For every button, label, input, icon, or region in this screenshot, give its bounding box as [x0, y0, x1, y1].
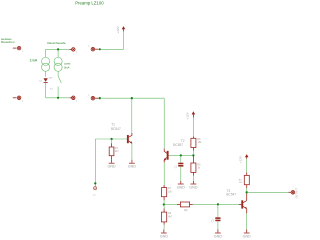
wire rail drop to T2 [163, 98, 165, 148]
node junction bottom noise rail [57, 97, 59, 99]
ground under T1 emitter [128, 160, 137, 169]
resistor R3 [191, 155, 196, 181]
wire junction to R5 [164, 204, 177, 206]
svg-text:1mA: 1mA [30, 58, 38, 62]
resistor R1 [109, 139, 114, 160]
transistor T3 [241, 200, 247, 209]
svg-text:BC547: BC547 [111, 127, 121, 131]
connector X3 (right of noise rail bottom) [70, 96, 78, 102]
ground under R3 [189, 181, 198, 189]
connector X1 (noise input left top) [13, 46, 24, 53]
resistor R6 [162, 205, 167, 230]
wire T2 base [169, 154, 194, 156]
svg-text:Preamp LZ100: Preamp LZ100 [75, 0, 104, 5]
svg-text:OUTPUT: OUTPUT [296, 188, 299, 199]
wire T3 emitter down [246, 209, 248, 214]
wire supply rail horizontal [100, 97, 164, 99]
capacitor C2 [215, 204, 220, 229]
ground under R6 [160, 229, 169, 238]
svg-text:+12V: +12V [185, 111, 189, 119]
svg-text:Rauschen: Rauschen [1, 40, 15, 44]
connector X7 (points down) [93, 184, 97, 197]
connector X5 (+12V feed) [88, 46, 99, 51]
wire bottom rail of noise source [46, 97, 70, 99]
svg-text:BC557: BC557 [173, 143, 183, 147]
wire T1 emitter [131, 144, 133, 160]
capacitor C1 [178, 155, 183, 181]
resistor R5 (horizontal) [177, 202, 193, 207]
wire R5 to C2 junction [193, 203, 218, 205]
wire output to connector [247, 191, 289, 193]
wire switch bottom [57, 87, 59, 98]
node junction top noise rail [57, 48, 59, 50]
node junction rail T1 collector [131, 97, 133, 99]
wire top rail of noise source [46, 48, 70, 50]
label T1 [111, 123, 121, 131]
wire T2 emitter down [163, 160, 165, 163]
svg-text:GND: GND [128, 165, 137, 169]
node junction output [246, 191, 248, 193]
wire base drop to connector [94, 139, 96, 183]
svg-text:GND: GND [108, 165, 117, 169]
wire T1 base [95, 138, 127, 140]
node junction C2/T3 base [217, 203, 219, 205]
svg-text:Z3V: Z3V [49, 78, 54, 80]
svg-text:BC547: BC547 [226, 193, 236, 197]
ground under C1 [177, 181, 186, 189]
label R7 [239, 179, 243, 184]
node junction emitter divider [163, 203, 165, 205]
ground under R1 [108, 160, 117, 169]
svg-text:GND: GND [243, 234, 252, 238]
label weisses Rauschen [1, 37, 15, 44]
wire T1 collector drop [131, 98, 133, 133]
wire zener to bottom rail [45, 83, 47, 98]
svg-text:4k7: 4k7 [168, 215, 173, 218]
resistor R4 [162, 185, 167, 205]
label R6 [168, 212, 173, 218]
wire C2 junction to T3 base [218, 203, 239, 205]
label R2 [197, 138, 202, 144]
connector X6 (supply rail feed) [88, 95, 98, 100]
svg-text:GND: GND [189, 185, 198, 189]
svg-text:1k0: 1k0 [184, 209, 189, 212]
svg-text:+12V: +12V [239, 155, 243, 163]
svg-text:4k7: 4k7 [115, 150, 120, 153]
connector X8 (output) [288, 188, 298, 199]
svg-text:GND: GND [177, 185, 186, 189]
svg-text:const: const [64, 62, 70, 66]
supply +12V symbol 1 [116, 25, 125, 33]
zener diode D1 [39, 78, 53, 83]
wire +12V to connector X5 [100, 31, 124, 49]
transistor T1 [127, 135, 132, 144]
connector X2 (right of noise rail top) [70, 48, 78, 54]
resistor R2 [191, 137, 196, 156]
supply +12V symbol 3 [239, 154, 249, 163]
wire +12V3 to R7 [246, 159, 248, 173]
label R3 [197, 164, 201, 170]
node junction base/R2 [192, 154, 194, 156]
node wire end dot [99, 48, 101, 50]
ground under T3 emitter [243, 229, 252, 238]
resistor R7 [244, 173, 249, 193]
node rail start dot [99, 97, 101, 99]
svg-text:+12V: +12V [116, 25, 120, 33]
current source G2 [54, 49, 62, 76]
svg-text:GND: GND [214, 234, 223, 238]
node dot above connector X7 [94, 182, 96, 184]
switch S1 lever [58, 76, 61, 83]
label R1 [115, 147, 120, 153]
node junction base/C1 [180, 154, 182, 156]
label T3 [226, 189, 236, 196]
label const 0mA [64, 62, 70, 70]
label R4 [168, 187, 173, 194]
svg-text:0mA: 0mA [64, 66, 70, 70]
wire +12V2 to R2 [192, 118, 194, 138]
transistor T2 (PNP, pins left) [164, 151, 169, 161]
wire T3 collector up [246, 192, 248, 200]
svg-text:Rauschquelle: Rauschquelle [47, 41, 66, 45]
supply +12V symbol 2 [185, 111, 195, 119]
ground under C2 [214, 229, 223, 238]
label T2 [173, 139, 184, 147]
connector X4 (left bottom, floating) [13, 96, 24, 103]
svg-text:GND: GND [160, 234, 169, 238]
node junction T1 base [111, 138, 113, 140]
current source G1 [42, 49, 50, 76]
